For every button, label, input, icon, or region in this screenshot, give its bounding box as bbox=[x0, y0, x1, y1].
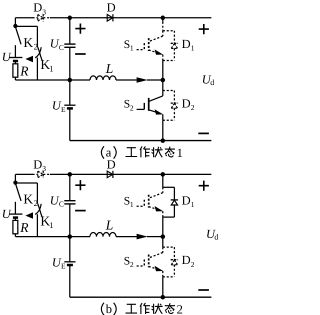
svg-text:C: C bbox=[59, 200, 64, 209]
svg-text:b: b bbox=[106, 302, 112, 315]
diode D (b) bbox=[107, 157, 116, 178]
wire: S2 emitter to bottom rail (b) bbox=[162, 277, 164, 297]
caption (b) gongzuo zhuangtai 2 bbox=[101, 302, 182, 315]
wire: switch row to K1 branch (b) bbox=[15, 182, 37, 184]
wire: middle rail (a) bbox=[15, 79, 136, 81]
switch K2 (a, open blade) bbox=[16, 28, 38, 52]
IGBT S2 (a, conducting, solid) bbox=[124, 91, 163, 115]
IGBT S2 (b, off, dashed) bbox=[124, 247, 163, 271]
svg-text:K: K bbox=[23, 35, 33, 50]
svg-text:1: 1 bbox=[177, 146, 183, 160]
svg-text:E: E bbox=[61, 261, 66, 270]
node: top rail / S1 branch junction (a) bbox=[161, 16, 166, 21]
wire: S1 branch to mid node (b) bbox=[162, 217, 164, 237]
wire: bottom rail (b) bbox=[70, 296, 212, 298]
svg-text:E: E bbox=[61, 105, 66, 114]
diode D3 (b, blocking, dashed) bbox=[33, 157, 51, 178]
wire: mid node to S2 (b) bbox=[162, 237, 164, 248]
svg-text:2: 2 bbox=[191, 103, 195, 112]
node: bottom rail junction (b) bbox=[161, 295, 166, 300]
svg-text:D: D bbox=[33, 157, 42, 171]
IGBT S1 (b, off, dashed) bbox=[124, 187, 163, 211]
IGBT S1 (a, off, dashed) bbox=[124, 31, 163, 55]
svg-text:3: 3 bbox=[42, 164, 46, 173]
polarity - of output (a) bbox=[198, 132, 209, 134]
wire: S2 emitter to bottom rail (a) bbox=[162, 120, 164, 140]
wire: left drop from top rail (a) bbox=[14, 18, 16, 26]
svg-text:D: D bbox=[33, 1, 42, 15]
switch K2 (b, open blade) bbox=[16, 185, 38, 209]
svg-text:d: d bbox=[210, 78, 214, 87]
node: top rail / UC junction (b) bbox=[68, 172, 73, 177]
label Ud output voltage (b) bbox=[206, 227, 218, 242]
svg-text:2: 2 bbox=[177, 303, 183, 315]
resistor R (b) bbox=[13, 220, 29, 236]
svg-text:D: D bbox=[182, 97, 191, 111]
diode D3 (a, blocking, dashed) bbox=[33, 1, 51, 22]
inductor L (a) bbox=[90, 61, 116, 80]
switch K1 (b, blade with contact) bbox=[37, 183, 53, 237]
capacitor UC (a) bbox=[50, 18, 76, 80]
svg-text:1: 1 bbox=[130, 200, 134, 209]
svg-text:U: U bbox=[2, 50, 12, 64]
polarity + of output (b) bbox=[199, 181, 209, 191]
wire: mid node to S2 (a) bbox=[162, 80, 164, 91]
svg-text:R: R bbox=[19, 64, 29, 79]
label Ud output voltage (a) bbox=[202, 73, 214, 88]
wire: S1 collector drop (b) bbox=[162, 174, 164, 187]
svg-text:2: 2 bbox=[191, 260, 195, 269]
svg-text:1: 1 bbox=[191, 200, 195, 209]
capacitor UC (b) bbox=[50, 174, 76, 236]
diode D2 (b, dashed) bbox=[163, 247, 195, 277]
battery UE (a) bbox=[52, 80, 76, 141]
node: top rail / UC junction (a) bbox=[68, 16, 73, 21]
polarity - of output (b) bbox=[198, 289, 209, 291]
svg-text:C: C bbox=[59, 43, 64, 52]
wire: top rail (a) bbox=[15, 17, 211, 19]
battery U (b) bbox=[2, 202, 23, 221]
battery UE (b) bbox=[52, 237, 76, 298]
node: switch pole junction (b) bbox=[13, 181, 17, 185]
node: mid rail / phase-leg junction (a) bbox=[161, 78, 166, 83]
node: mid rail / UC-UE junction (a) bbox=[68, 78, 73, 83]
svg-text:R: R bbox=[19, 220, 29, 235]
wire: S1 branch to mid node (a) bbox=[162, 61, 164, 81]
svg-text:D: D bbox=[107, 1, 116, 15]
svg-text:U: U bbox=[2, 207, 12, 221]
svg-text:L: L bbox=[105, 218, 114, 233]
svg-text:K: K bbox=[23, 191, 33, 206]
switch K1 (a, blade with contact) bbox=[37, 26, 53, 80]
svg-text:D: D bbox=[182, 193, 191, 207]
resistor R (a) bbox=[13, 64, 29, 80]
wire: middle rail (b) bbox=[15, 236, 136, 238]
svg-text:L: L bbox=[105, 61, 114, 76]
caption (a) gongzuo zhuangtai 1 bbox=[101, 145, 182, 160]
polarity - of UC (b) bbox=[75, 210, 86, 212]
svg-text:1: 1 bbox=[49, 63, 53, 73]
diode D (a) bbox=[107, 1, 116, 22]
svg-text:3: 3 bbox=[42, 7, 46, 16]
svg-text:d: d bbox=[214, 233, 218, 242]
diode D1 (a, dashed) bbox=[163, 31, 195, 61]
svg-text:D: D bbox=[107, 157, 116, 171]
svg-text:1: 1 bbox=[49, 220, 53, 230]
svg-text:1: 1 bbox=[130, 44, 134, 53]
inductor current arrow (b) bbox=[137, 234, 163, 240]
battery U (a) bbox=[2, 45, 23, 64]
node: switch pole junction (a) bbox=[13, 24, 17, 28]
svg-text:1: 1 bbox=[191, 43, 195, 52]
node: bottom rail junction (a) bbox=[161, 138, 166, 143]
wire: bottom rail (a) bbox=[70, 140, 212, 142]
diode D2 (a, dashed) bbox=[163, 91, 195, 121]
inductor current arrow (a) bbox=[137, 77, 163, 83]
wire: top rail (b) bbox=[15, 173, 211, 175]
wire: left drop from top rail (b) bbox=[14, 174, 16, 182]
diode D1 (b, conducting, solid) bbox=[163, 187, 195, 217]
polarity + of UC (a) bbox=[75, 24, 85, 34]
switch action arrow (a) bbox=[25, 47, 41, 62]
wire: S2 emitter stub (b) bbox=[162, 271, 164, 277]
svg-text:D: D bbox=[182, 37, 191, 51]
wire: S2 emitter stub (a) bbox=[162, 114, 164, 120]
svg-text:2: 2 bbox=[130, 103, 134, 112]
inductor L (b) bbox=[90, 218, 116, 237]
wire: switch row to K1 branch (a) bbox=[15, 25, 37, 27]
node: mid rail / UC-UE junction (b) bbox=[68, 234, 73, 239]
node: top rail / S1 branch junction (b) bbox=[161, 172, 166, 177]
wire: S1 collector drop (a) bbox=[162, 18, 164, 31]
svg-text:2: 2 bbox=[130, 260, 134, 269]
svg-text:D: D bbox=[182, 253, 191, 267]
polarity + of UC (b) bbox=[75, 180, 85, 190]
wire: S1 emitter stub (a) bbox=[162, 55, 164, 61]
polarity + of output (a) bbox=[199, 24, 209, 34]
node: mid rail / phase-leg junction (b) bbox=[161, 234, 166, 239]
switch action arrow (b) bbox=[25, 204, 41, 219]
wire: S1 emitter stub (b) bbox=[162, 211, 164, 217]
polarity - of UC (a) bbox=[75, 53, 86, 55]
